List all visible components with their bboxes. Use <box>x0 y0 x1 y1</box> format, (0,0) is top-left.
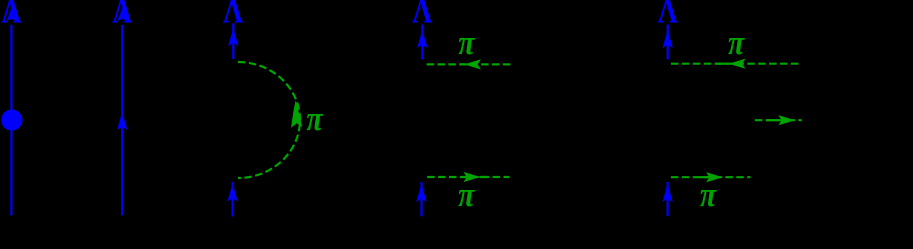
svg-text:π: π <box>700 176 717 214</box>
arrowhead on bottom segment (d) <box>416 184 426 203</box>
arrowhead at top of Lambda line (a) <box>6 8 16 22</box>
bottom pion line (d) <box>427 176 509 178</box>
Lambda incoming top segment (e) <box>667 25 669 60</box>
svg-text:=: = <box>58 108 72 134</box>
merged dash at arrow tip (d top) <box>460 63 465 65</box>
top pion line (e) <box>671 63 802 65</box>
svg-text:+: + <box>168 108 182 134</box>
left arrowhead on top pion line (e) <box>728 59 745 69</box>
svg-text:π: π <box>728 24 745 62</box>
top pion line (d) <box>427 63 512 65</box>
arrowhead on top segment (d) <box>417 30 427 49</box>
svg-text:(d): (d) <box>455 226 478 248</box>
right arrowhead on bottom pion line (e) <box>706 172 723 182</box>
svg-text:π: π <box>306 100 323 138</box>
svg-text:(a): (a) <box>0 226 22 248</box>
self-energy blob (a) <box>1 109 22 130</box>
Lambda baryon line (b) <box>121 25 123 215</box>
intermediate baryon line (c) (black, invisible) <box>232 62 234 178</box>
Lambda outgoing bottom segment (c) <box>232 182 234 217</box>
svg-text:(b): (b) <box>110 226 133 248</box>
Lambda baryon line (a) <box>10 25 12 215</box>
right arrowhead on bottom pion line (d) <box>464 172 481 182</box>
left arrowhead on top pion line (d) <box>464 59 481 69</box>
arrowhead on pion arc (c) <box>291 100 302 128</box>
arrowhead on top segment (c) <box>228 28 238 47</box>
intermediate baryon line (e) (black, invisible) <box>667 62 669 179</box>
arrowhead at top of Lambda line (b) <box>117 8 127 22</box>
arrowhead on top segment (e) <box>663 30 673 49</box>
merged dash behind arrow (e bottom) <box>699 176 707 178</box>
Lambda incoming top segment (c) <box>232 24 234 60</box>
right arrowhead on mid pion line (e) <box>778 115 795 125</box>
mid arrowhead on Lambda line (b) <box>117 112 127 131</box>
arrowhead on bottom segment (e) <box>662 184 672 203</box>
bottom pion line (e) <box>671 176 751 178</box>
svg-text:π: π <box>458 176 475 214</box>
merged dash at arrow tip (e top) <box>717 63 730 65</box>
mid pion line (e) <box>755 119 802 121</box>
merged dash at arrow tip (d bottom) <box>480 176 488 178</box>
svg-text:π: π <box>458 24 475 62</box>
svg-text:(c): (c) <box>229 226 251 248</box>
Lambda outgoing bottom segment (d) <box>420 182 422 216</box>
intermediate baryon line (d) (black, invisible) <box>421 62 423 179</box>
Lambda incoming top segment (d) <box>421 25 423 60</box>
pion loop arc (c) <box>238 62 300 178</box>
arrowhead on bottom segment (c) <box>227 183 237 202</box>
merged dash behind arrow (e mid) <box>766 119 780 121</box>
svg-text:(e): (e) <box>700 226 722 248</box>
Lambda outgoing bottom segment (e) <box>666 182 668 216</box>
svg-text:+: + <box>578 108 592 134</box>
